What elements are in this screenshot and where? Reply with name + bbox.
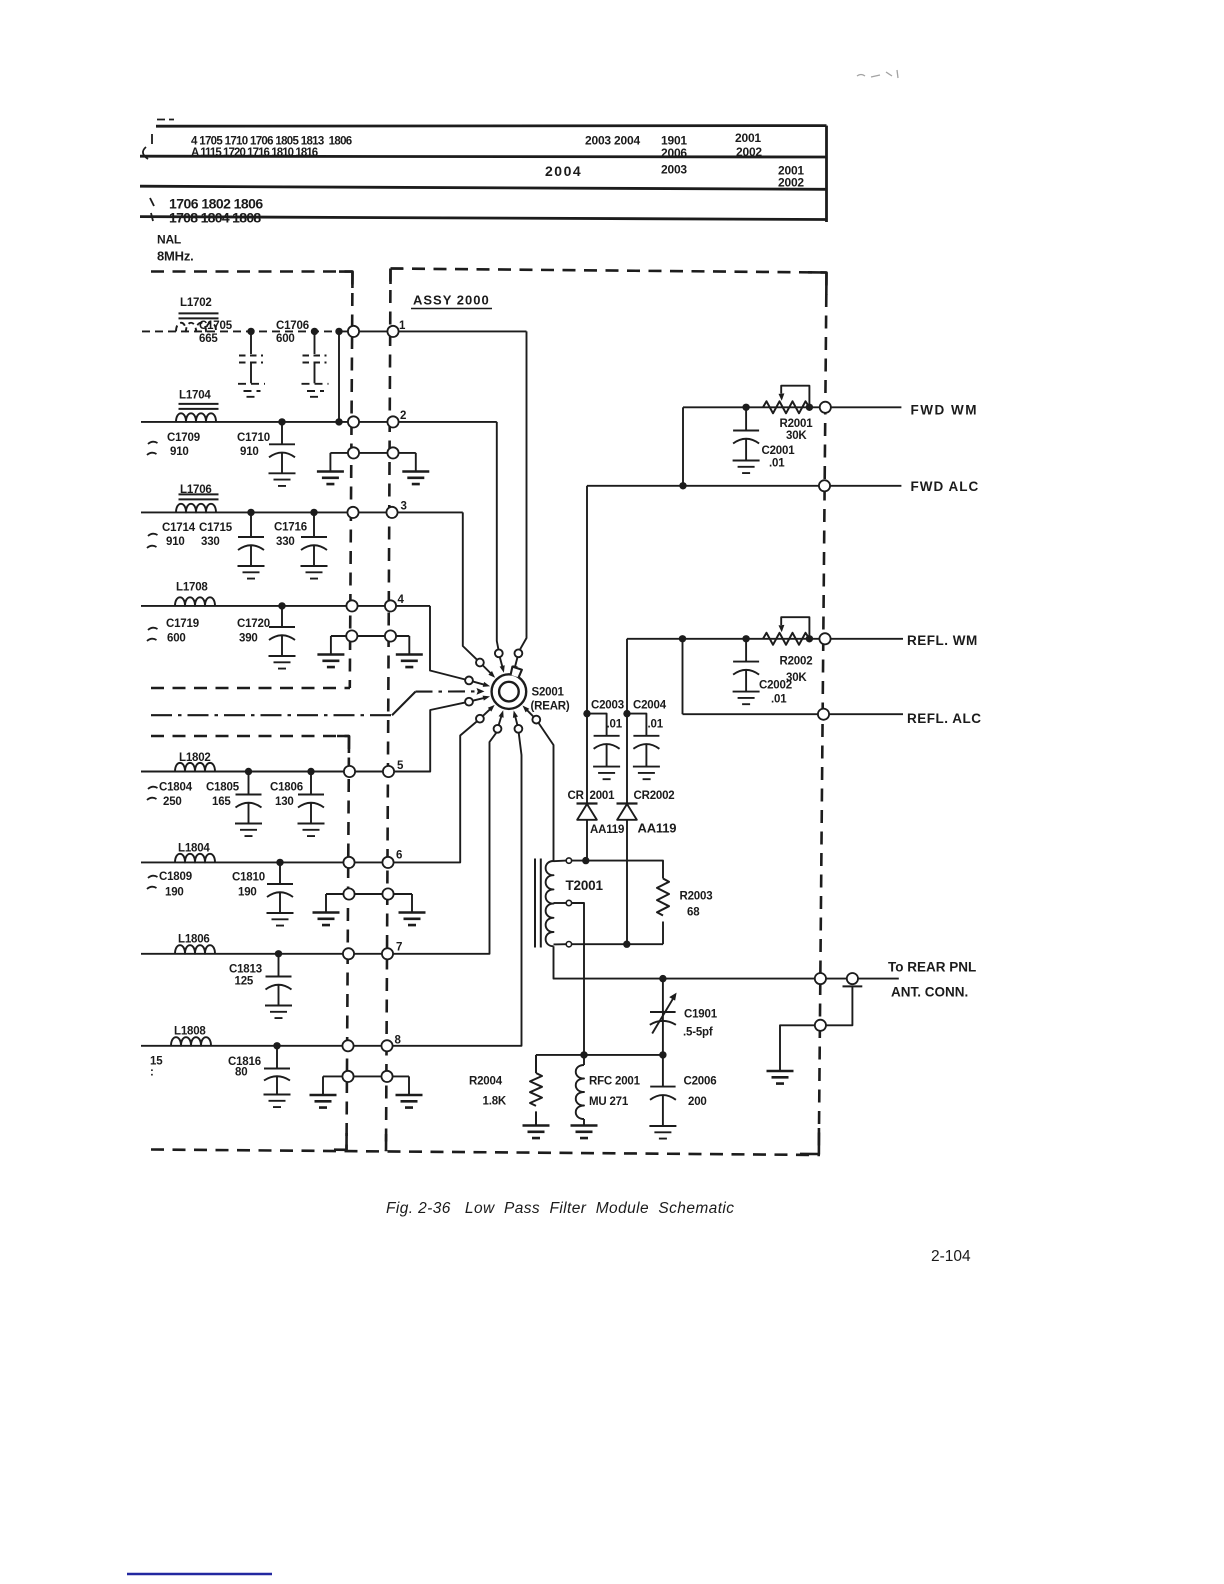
svg-text:3: 3 <box>401 501 407 513</box>
svg-text:C1810: C1810 <box>232 872 265 884</box>
svg-text:ANT. CONN.: ANT. CONN. <box>891 985 968 1000</box>
faint pencil mark top right <box>857 70 898 78</box>
svg-text:8: 8 <box>395 1035 402 1047</box>
lower-left box top border <box>151 735 349 738</box>
svg-text:.01: .01 <box>771 694 787 706</box>
assy 2000 box left border <box>386 269 391 1152</box>
connector pin 7 left <box>343 948 354 959</box>
table bottom line <box>140 217 827 220</box>
cut mark row4 <box>151 213 153 221</box>
wire CR2001 branch upper <box>586 486 588 804</box>
junction row5-C1805 <box>245 768 252 775</box>
svg-text:330: 330 <box>276 536 295 548</box>
svg-text:C2004: C2004 <box>633 700 667 712</box>
cut mark C1719 <box>147 628 158 641</box>
resistor R2004 <box>530 1055 542 1126</box>
ground row-c left <box>313 913 340 926</box>
capacitor C1716 <box>301 512 328 578</box>
svg-text:C2003: C2003 <box>591 700 624 712</box>
svg-text:30K: 30K <box>786 430 807 442</box>
switch arrow wire4 <box>473 682 484 685</box>
antenna shield bar <box>843 985 863 987</box>
svg-text:MU 271: MU 271 <box>589 1096 629 1108</box>
tick marks top left <box>157 119 174 121</box>
svg-text:C1716: C1716 <box>274 522 307 534</box>
junction row1-C1706 <box>311 328 318 335</box>
svg-text:L1804: L1804 <box>178 843 210 855</box>
capacitor C1715 <box>238 512 265 578</box>
junction row6-C1810 <box>276 859 283 866</box>
switch contact pin2 <box>495 649 503 657</box>
ground row-a right <box>402 472 429 485</box>
inductor L1708 <box>175 597 215 606</box>
svg-text:AA119: AA119 <box>590 824 624 836</box>
connector pin 2 right <box>387 416 398 427</box>
inductor L1802 <box>175 763 215 772</box>
svg-text:C1714: C1714 <box>162 522 196 534</box>
connector pin 7 right <box>382 948 393 959</box>
rotary switch S2001 body outer <box>492 674 527 709</box>
svg-text:REFL. WM: REFL. WM <box>907 633 978 648</box>
switch contact pin3 <box>476 659 484 667</box>
connector pin 3 right <box>386 507 397 518</box>
svg-text:190: 190 <box>165 887 184 899</box>
svg-text:2-104: 2-104 <box>931 1248 971 1265</box>
ground row-c right <box>399 913 426 926</box>
wire row2 <box>141 421 497 423</box>
capacitor C1813 <box>265 954 292 1018</box>
T2001 middle tap stub <box>554 902 567 904</box>
R2001 wiper link <box>781 386 809 408</box>
rotary switch S2001 key tab <box>511 667 522 678</box>
junction C2004 tap <box>623 710 630 717</box>
switch arrow wire1 <box>515 658 517 667</box>
svg-text:.01: .01 <box>769 458 785 470</box>
blue underline bottom left <box>127 1573 272 1576</box>
transformer T2001 winding feed from switch <box>539 723 554 861</box>
svg-text:80: 80 <box>235 1067 247 1079</box>
wire FWD-WM to FWD-ALC drop <box>682 407 684 486</box>
upper-left box right border <box>350 272 353 689</box>
diode CR2001 cathode bar <box>577 802 598 804</box>
svg-text:ASSY 2000: ASSY 2000 <box>413 293 490 308</box>
capacitor C1720 <box>269 606 296 669</box>
svg-text::: : <box>150 1067 154 1079</box>
connector pin row-b left <box>346 630 357 641</box>
ground row-d left <box>310 1095 337 1108</box>
cut mark C1804 <box>147 787 158 800</box>
connector pin 4 right <box>385 600 396 611</box>
wire row6 <box>141 721 477 862</box>
wire pin2 riser <box>497 422 499 649</box>
wire pin3 riser <box>463 512 477 659</box>
choke RFC2001 <box>576 1055 584 1126</box>
switch arrow T2001 <box>527 710 534 717</box>
diode CR2002 triangle <box>617 804 637 820</box>
svg-text:L1706: L1706 <box>180 484 212 496</box>
junction FWD-WM right <box>806 404 813 411</box>
svg-text:A 1115 1720 1716 1810 1816: A 1115 1720 1716 1810 1816 <box>191 147 318 159</box>
svg-text:165: 165 <box>212 796 231 808</box>
svg-text:125: 125 <box>235 976 254 988</box>
switch contact pin4 <box>465 677 473 685</box>
C1901 arrowhead <box>669 993 676 1001</box>
cut mark C1709 <box>147 442 158 455</box>
switch arrow wire3 <box>483 666 491 674</box>
gnd row-b link <box>331 636 409 655</box>
svg-text:665: 665 <box>199 333 218 345</box>
switch arrow wire6 <box>483 709 490 716</box>
cut mark C1809 <box>147 876 158 889</box>
junction RFC2001 <box>580 1051 587 1058</box>
ground row-d right <box>396 1095 423 1108</box>
junction row2-C1710 <box>278 418 285 425</box>
ground R2004 <box>523 1126 550 1139</box>
inductor L1808 <box>171 1037 211 1046</box>
mechanical link diagonal <box>392 692 416 716</box>
junction C2006 <box>659 1051 666 1058</box>
wire T2001 middle to RFC node <box>572 903 584 1055</box>
potentiometer R2001 <box>763 401 810 413</box>
connector antenna center right <box>847 973 858 984</box>
wire CR2002 to T2001 <box>626 820 628 944</box>
svg-text:C1813: C1813 <box>229 964 262 976</box>
junction row2 join <box>335 418 342 425</box>
svg-text:2002: 2002 <box>778 176 804 190</box>
junction C2003 tap <box>583 710 590 717</box>
svg-text:To REAR PNL: To REAR PNL <box>888 960 976 975</box>
svg-text:C1706: C1706 <box>276 320 309 332</box>
junction FWD-ALC <box>679 482 686 489</box>
mechanical link arrowhead <box>477 688 485 695</box>
switch contact pin1 <box>515 649 523 657</box>
svg-text:200: 200 <box>688 1096 707 1108</box>
capacitor C1816 <box>264 1046 291 1107</box>
table line 2 <box>140 155 827 159</box>
svg-text:2006: 2006 <box>661 146 687 160</box>
junction row5-C1806 <box>307 768 314 775</box>
connector pin 2 left <box>348 416 359 427</box>
wire pin1 riser <box>520 331 527 649</box>
connector pin row-d left <box>342 1071 353 1082</box>
svg-text:250: 250 <box>163 796 182 808</box>
wire T2001 top to R2003 <box>572 861 663 879</box>
cut mark row3 <box>150 198 154 206</box>
svg-text:2002: 2002 <box>736 145 762 159</box>
assy 2000 box top border <box>391 269 827 273</box>
T2001 terminal bottom <box>566 942 571 947</box>
wire FWD ALC <box>587 485 901 487</box>
svg-text:130: 130 <box>275 796 294 808</box>
capacitor C2004 <box>627 714 660 780</box>
inductor L1702 <box>176 323 216 332</box>
mechanical link dash-dot line lower box <box>151 714 392 716</box>
capacitor C1805 <box>235 772 262 837</box>
junction row1-C1705 <box>247 328 254 335</box>
svg-text:C1809: C1809 <box>159 871 192 883</box>
connector pin 5 left <box>344 766 355 777</box>
capacitor C1710 <box>269 422 296 486</box>
variable capacitor C1901 plates <box>650 1012 676 1025</box>
junction row7-C1813 <box>275 950 282 957</box>
gnd row-d link <box>323 1076 409 1095</box>
connector pin 1 right <box>387 326 398 337</box>
svg-text:.01: .01 <box>607 719 623 731</box>
capacitor C2006 <box>649 1055 676 1139</box>
connector pin 4 left <box>346 600 357 611</box>
diode CR2002 cathode bar <box>617 802 638 804</box>
wire pin4 riser <box>430 606 465 680</box>
inductor L1704 <box>176 413 216 422</box>
junction row3-C1716 <box>310 509 317 516</box>
svg-text:190: 190 <box>238 887 257 899</box>
svg-text:R2004: R2004 <box>469 1076 503 1088</box>
switch arrow wire7 <box>499 716 502 725</box>
wire CR2002 branch upper <box>626 639 628 804</box>
gnd row-a link <box>330 453 415 472</box>
svg-text:2001: 2001 <box>590 790 616 802</box>
svg-text:2: 2 <box>400 410 406 422</box>
svg-text:390: 390 <box>239 633 258 645</box>
svg-text:REFL. ALC: REFL. ALC <box>907 711 982 726</box>
T2001 bottom tap stub <box>554 943 567 945</box>
svg-text:C1715: C1715 <box>199 522 233 534</box>
switch arrow wire5 <box>473 698 484 701</box>
connector pin row-c right <box>382 888 393 899</box>
connector pin 5 right <box>383 766 394 777</box>
svg-text:L1808: L1808 <box>174 1026 206 1038</box>
svg-text:NAL: NAL <box>157 233 181 247</box>
connector antenna center left <box>815 973 826 984</box>
cut mark left column <box>143 134 152 159</box>
svg-text:RFC 2001: RFC 2001 <box>589 1076 641 1088</box>
junction row4-C1720 <box>278 602 285 609</box>
svg-text:4: 4 <box>398 594 405 606</box>
svg-text:R2003: R2003 <box>680 891 713 903</box>
svg-text:C1720: C1720 <box>237 618 270 630</box>
connector pin 8 left <box>342 1040 353 1051</box>
table line 3 <box>140 186 827 189</box>
junction CR2001-T2001 <box>582 857 589 864</box>
svg-text:Fig. 2-36 Low Pass Filter: Fig. 2-36 Low Pass Filter Module Schemat… <box>386 1200 734 1217</box>
potentiometer R2002 <box>763 633 810 645</box>
wire R2003 bottom <box>662 922 664 945</box>
connector pin row-a right <box>387 447 398 458</box>
capacitor C1705 <box>250 331 252 354</box>
wire antenna line <box>554 946 899 978</box>
upper-left box top border <box>151 270 353 273</box>
transformer T2001 winding <box>546 861 554 946</box>
capacitor C1806 <box>298 772 325 837</box>
junction C1901 top <box>659 975 666 982</box>
connector antenna shield <box>815 1020 826 1031</box>
connector REFL ALC <box>818 709 829 720</box>
svg-text:C2001: C2001 <box>762 445 796 457</box>
svg-text:FWD ALC: FWD ALC <box>911 479 980 494</box>
svg-text:R2001: R2001 <box>780 418 814 430</box>
svg-text:C2002: C2002 <box>759 680 792 692</box>
svg-text:910: 910 <box>170 446 189 458</box>
switch arrow wire2 <box>500 658 503 667</box>
T2001 terminal middle <box>566 900 571 905</box>
transformer T2001 core <box>535 859 541 948</box>
wire CR2001 to T2001 <box>586 820 588 861</box>
shared bottom border <box>151 1150 820 1156</box>
svg-text:.5-5pf: .5-5pf <box>683 1027 713 1039</box>
connector pin 6 left <box>343 857 354 868</box>
wire row7 <box>141 733 496 954</box>
svg-text:L1702: L1702 <box>180 297 212 309</box>
wire RFC node row <box>536 1054 663 1056</box>
ground RFC2001 <box>571 1126 598 1139</box>
svg-text:.01: .01 <box>648 719 664 731</box>
svg-text:L1806: L1806 <box>178 934 210 946</box>
wire REFL ALC <box>683 713 904 715</box>
wire row5 <box>141 702 465 771</box>
R2002 wiper arrowhead <box>779 625 785 632</box>
wire T2001 bottom to R2003 <box>572 943 663 945</box>
switch contact T2001 <box>532 716 540 724</box>
switch contact pin6 <box>476 715 484 723</box>
wire REFL-WM to REFL-ALC drop <box>682 639 684 714</box>
ground antenna shield <box>767 1071 794 1084</box>
connector pin row-d right <box>381 1071 392 1082</box>
svg-text:S2001: S2001 <box>532 687 565 699</box>
svg-text:C1710: C1710 <box>237 432 270 444</box>
wire join row1-row2 <box>338 331 340 422</box>
capacitor C2003 <box>587 714 620 780</box>
mechanical link dash-dot to switch <box>416 690 478 692</box>
svg-text:5: 5 <box>397 760 404 772</box>
diode CR2001 triangle <box>577 804 597 820</box>
svg-text:T2001: T2001 <box>566 878 604 893</box>
ground row-a left <box>317 472 344 485</box>
junction row3-C1715 <box>247 509 254 516</box>
svg-text:330: 330 <box>201 536 220 548</box>
variable capacitor C1901 arrow <box>652 998 673 1033</box>
svg-text:2001: 2001 <box>735 131 761 145</box>
ground row-b left <box>317 655 344 668</box>
capacitor C2001 <box>733 407 760 473</box>
svg-text:C1709: C1709 <box>167 432 200 444</box>
table top line <box>156 124 827 127</box>
resistor R2003 <box>657 879 669 916</box>
svg-text:910: 910 <box>240 446 259 458</box>
wire FWD WM <box>683 406 901 408</box>
junction row1 join <box>335 328 342 335</box>
box corner elbows <box>334 269 827 1155</box>
gnd row-c link <box>326 894 412 913</box>
assy 2000 box right border <box>819 273 827 1153</box>
connector pin row-a left <box>348 447 359 458</box>
capacitor C2002 <box>733 639 760 704</box>
connector pin 1 left <box>348 326 359 337</box>
svg-text:(REAR): (REAR) <box>531 701 570 713</box>
switch arrow wire8 <box>515 716 517 724</box>
T2001 top tap stub <box>554 860 567 863</box>
table right border <box>825 126 828 222</box>
svg-text:C2006: C2006 <box>684 1076 717 1088</box>
svg-text:C1901: C1901 <box>684 1009 718 1021</box>
svg-text:C1806: C1806 <box>270 782 303 794</box>
connector pin 8 right <box>381 1040 392 1051</box>
svg-text:C1719: C1719 <box>166 618 199 630</box>
switch contact pin7 <box>494 725 502 733</box>
svg-text:C1705: C1705 <box>199 320 233 332</box>
connector FWD WM <box>820 402 831 413</box>
capacitor C1706 <box>314 331 316 354</box>
svg-text:CR: CR <box>568 790 585 802</box>
svg-text:L1802: L1802 <box>179 752 211 764</box>
variable capacitor C1901 lead <box>662 979 664 1055</box>
junction REFL-WM right <box>806 635 813 642</box>
svg-text:1708 1804 1808: 1708 1804 1808 <box>169 210 261 226</box>
wire row3 <box>141 511 463 513</box>
connector pin row-b right <box>385 630 396 641</box>
svg-text:6: 6 <box>396 850 402 862</box>
svg-text:C1805: C1805 <box>206 782 240 794</box>
svg-text:2003 2004: 2003 2004 <box>585 134 640 148</box>
svg-text:L1704: L1704 <box>179 390 211 402</box>
svg-text:CR2002: CR2002 <box>634 790 675 802</box>
svg-text:910: 910 <box>166 536 185 548</box>
R2001 wiper arrowhead <box>779 393 785 400</box>
cut mark C1714 <box>147 534 158 548</box>
R2002 wiper link <box>781 617 809 639</box>
junction REFL-WM C2002 <box>742 635 749 642</box>
ground row-b right <box>396 655 423 668</box>
capacitor C1810 <box>267 862 294 925</box>
connector pin 6 right <box>382 857 393 868</box>
junction FWD-WM left <box>742 404 749 411</box>
connector pin 3 left <box>347 507 358 518</box>
ASSY 2000 underline <box>411 308 492 310</box>
junction row8-C1816 <box>273 1042 280 1049</box>
rotary switch S2001 body inner <box>499 682 519 702</box>
inductor L1804 <box>175 854 215 863</box>
lower-left box right border <box>347 736 350 1150</box>
wire row1 solid to connector <box>339 330 527 332</box>
T2001 terminal top <box>566 858 571 863</box>
wire antenna shield drop <box>780 986 852 1071</box>
wire row8 <box>141 733 522 1046</box>
wire row1 dashed <box>142 330 339 332</box>
svg-text:C1804: C1804 <box>159 782 193 794</box>
svg-text:600: 600 <box>167 633 186 645</box>
svg-text:L1708: L1708 <box>176 582 208 594</box>
inductor L1806 <box>175 945 215 954</box>
svg-text:1: 1 <box>399 320 406 332</box>
wire REFL WM <box>627 638 903 640</box>
svg-text:68: 68 <box>687 907 700 919</box>
svg-text:2004: 2004 <box>545 163 582 179</box>
connector pin row-c left <box>343 888 354 899</box>
connector REFL WM <box>819 633 830 644</box>
svg-text:7: 7 <box>396 942 402 954</box>
inductor L1706 <box>176 504 216 513</box>
switch contact pin8 <box>515 725 523 733</box>
junction REFL-WM drop <box>679 635 686 642</box>
svg-text:8MHz.: 8MHz. <box>157 249 194 264</box>
svg-text:R2002: R2002 <box>780 656 813 668</box>
wire row4 <box>141 605 430 607</box>
connector FWD ALC <box>819 480 830 491</box>
svg-text:2003: 2003 <box>661 163 687 177</box>
upper-left box bottom border <box>151 687 350 690</box>
svg-text:FWD WM: FWD WM <box>911 403 978 418</box>
junction CR2002 bottom <box>623 941 630 948</box>
svg-text:600: 600 <box>276 333 295 345</box>
